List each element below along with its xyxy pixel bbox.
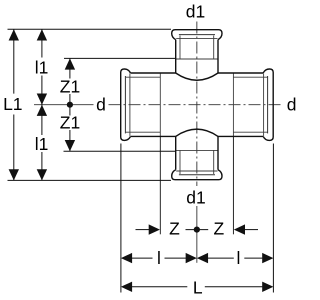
Z1 bottom reference line (64, 150, 176, 152)
L row left arrow (121, 282, 132, 292)
right press bead (263, 69, 273, 140)
fitting body fill (121, 30, 274, 180)
svg-text:l: l (157, 248, 161, 268)
saddle arc top (176, 73, 218, 80)
bottom press bead (172, 170, 222, 180)
L1 arrow down (9, 169, 19, 180)
svg-text:Z1: Z1 (60, 76, 80, 96)
extension line left end (120, 144, 122, 293)
L row right line (205, 286, 263, 288)
svg-text:l1: l1 (35, 57, 49, 77)
L row left line (132, 286, 187, 288)
extension line Z right (232, 136, 234, 234)
l1 arrow up top (37, 29, 47, 40)
I row right line (244, 257, 262, 259)
svg-text:l: l (237, 248, 241, 268)
Z1 dimension line (69, 58, 71, 151)
extension line Z left (159, 136, 161, 234)
svg-text:d: d (96, 94, 106, 114)
svg-text:Z1: Z1 (60, 113, 80, 133)
socket step left (159, 73, 161, 136)
I row right arrow (262, 253, 273, 263)
I center arrow left (197, 253, 208, 263)
bead lip line left (124, 76, 126, 133)
socket step right (232, 73, 234, 136)
svg-text:d1: d1 (186, 2, 205, 22)
bead attach edge top (176, 37, 217, 39)
horizontal centerline (34, 104, 94, 106)
I row left line (132, 257, 153, 259)
socket inner wall lines left (126, 77, 160, 132)
socket inner wall lines top (180, 36, 214, 60)
socket inner wall lines right (233, 77, 267, 132)
Z1 arrow up (65, 58, 75, 69)
branch walls top (176, 40, 218, 73)
socket step bottom (176, 149, 218, 151)
I row left arrow (121, 253, 132, 263)
Z1 arrow down (65, 140, 75, 151)
I row line to center (165, 257, 187, 259)
top press bead (172, 30, 222, 40)
l1 arrow down bottom (37, 169, 47, 180)
bead attach edge right (263, 74, 265, 136)
L1 dimension line (13, 29, 15, 180)
svg-text:d: d (287, 94, 297, 114)
top reference line (8, 28, 172, 30)
bead lip line top (179, 34, 215, 36)
bead attach edge bottom (176, 170, 217, 172)
socket inner wall lines bottom (180, 150, 214, 174)
Z1 top reference line (64, 57, 176, 59)
svg-text:Z: Z (169, 218, 180, 238)
svg-text:Z: Z (213, 218, 224, 238)
Z row right arrow (234, 224, 245, 234)
svg-text:L: L (193, 277, 203, 297)
bead attach edge left (129, 74, 131, 136)
Z row left tail (136, 229, 150, 231)
l1 dimension line (41, 29, 43, 180)
vertical centerline (196, 22, 198, 187)
extension line right end (272, 144, 274, 293)
Z1 center dot (67, 102, 73, 108)
socket step top (176, 58, 218, 60)
Z row left arrow (149, 224, 160, 234)
L row right arrow (262, 282, 273, 292)
L1 arrow up (9, 29, 19, 40)
bead lip line right (267, 76, 269, 133)
Z row right tail (245, 229, 258, 231)
left press bead (121, 69, 131, 140)
run silhouette bottom (131, 135, 264, 137)
run silhouette top (131, 72, 264, 74)
I center arrow right (186, 253, 197, 263)
bead lip line bottom (179, 174, 215, 176)
l1 arrow down to center (37, 94, 47, 105)
Z center dot (194, 227, 200, 233)
bottom reference line (8, 179, 172, 181)
saddle arc bottom (176, 129, 218, 136)
l1 arrow up from below (37, 105, 47, 116)
I row line from center (208, 257, 234, 259)
Z row center line (186, 229, 209, 231)
branch walls bottom (176, 136, 218, 169)
svg-text:L1: L1 (3, 94, 22, 114)
svg-text:d1: d1 (186, 187, 205, 207)
svg-text:l1: l1 (35, 134, 49, 154)
